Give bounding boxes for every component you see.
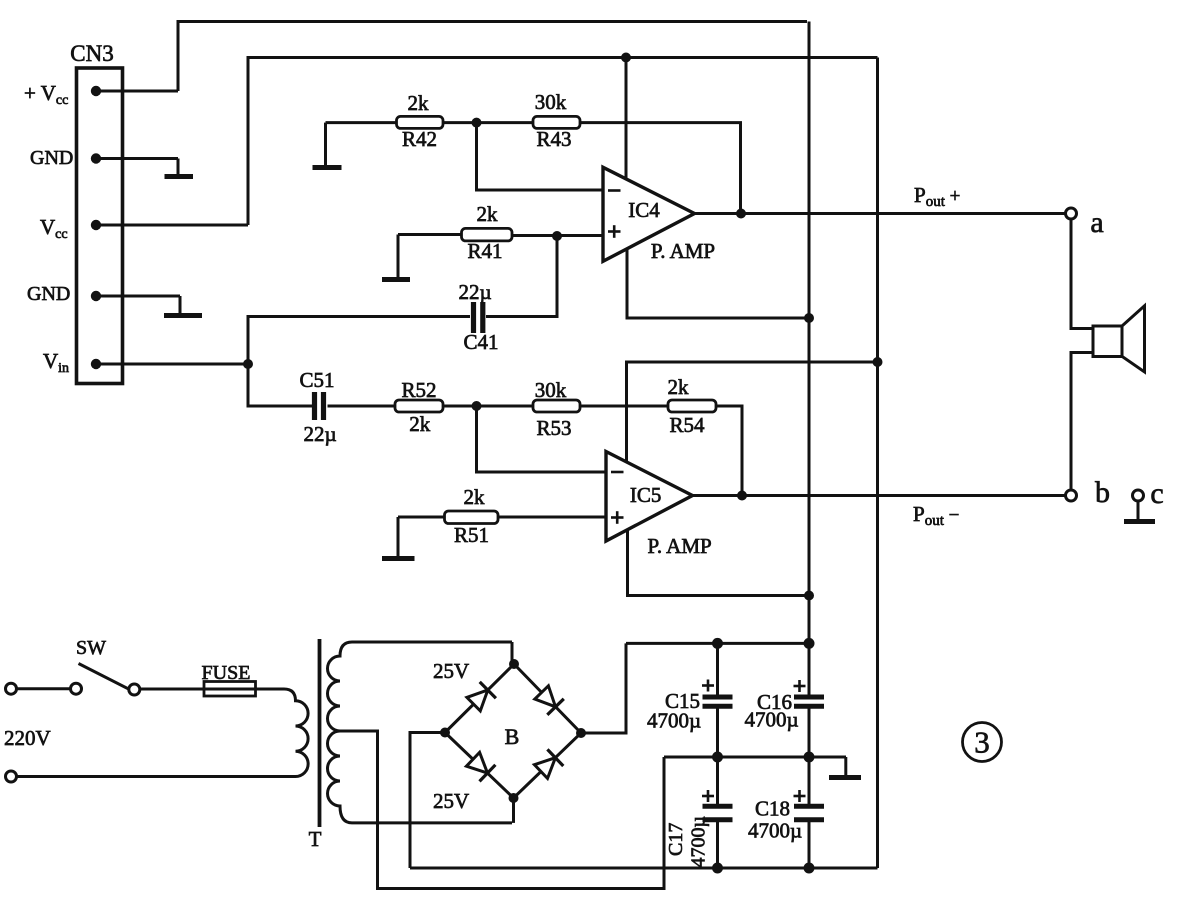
resistor R51 [445, 485, 499, 547]
svg-text:P. AMP: P. AMP [647, 534, 711, 558]
svg-text:22µ: 22µ [458, 280, 491, 304]
svg-text:IC4: IC4 [628, 198, 660, 222]
capacitor C16 4700u [745, 643, 825, 757]
pin +Vcc dot [91, 86, 101, 96]
pin Vcc dot [91, 220, 101, 230]
wire Vcc rail from CN3 pin3 up and across [248, 58, 878, 226]
speaker [1093, 306, 1145, 372]
node IC5 output junction [737, 491, 747, 501]
node IC5 supply wire to Vcc vertical [873, 357, 883, 367]
node bridge top vertex [509, 659, 519, 669]
wire secondary top to bridge [511, 642, 514, 664]
capacitor C18 4700u [748, 757, 824, 868]
op-amp IC4 [603, 167, 715, 263]
wire R52 to R53 [443, 405, 533, 408]
diode bridge bottom-right [534, 749, 563, 778]
capacitor C17 4700u [665, 757, 733, 868]
wire switch to fuse [140, 688, 204, 691]
node bridge right vertex [576, 728, 586, 738]
svg-text:2k: 2k [477, 202, 499, 226]
label Vcc [40, 215, 68, 242]
node negative rail C18 [804, 863, 815, 874]
transformer T secondary upper winding [328, 642, 513, 731]
svg-text:C18: C18 [755, 797, 790, 821]
svg-text:30k: 30k [535, 378, 567, 402]
wire +Vcc vertical line [808, 22, 811, 644]
wire CN3 pin2 GND lead [95, 157, 178, 160]
node positive rail C16 [804, 638, 815, 649]
op-amp IC5 [606, 452, 712, 559]
node R52/R53 junction [472, 401, 482, 411]
wire mid rail [664, 756, 846, 759]
wire C51 to R52 [328, 405, 396, 408]
label +Vcc [24, 81, 68, 108]
wire junction down to IC5 inverting input [477, 406, 607, 472]
node bridge left vertex [440, 728, 450, 738]
transformer T core [318, 639, 322, 827]
svg-text:GND: GND [27, 283, 70, 305]
svg-text:25V: 25V [433, 659, 469, 683]
wire IC5 positive supply from Vcc via x=877 line [627, 362, 878, 462]
ground mid rail [829, 757, 861, 778]
svg-text:R41: R41 [467, 239, 502, 263]
wire bridge right vertex to positive rail [581, 643, 626, 733]
svg-text:2k: 2k [408, 91, 430, 115]
wire junction down to IC4 inverting input [477, 123, 604, 190]
node mid rail C16 [804, 752, 815, 763]
svg-text:SW: SW [76, 637, 106, 659]
capacitor C51 22u [299, 368, 336, 446]
resistor R42 [397, 91, 444, 151]
svg-text:2k: 2k [464, 485, 486, 509]
wire R43 feedback to IC4 output [580, 123, 741, 214]
svg-text:a: a [1090, 206, 1103, 239]
svg-text:4700µ: 4700µ [745, 708, 799, 732]
pin GND2 dot [91, 153, 101, 163]
svg-text:b: b [1095, 476, 1110, 509]
pin GND4 dot [91, 291, 101, 301]
diode bridge top-left [467, 682, 496, 711]
bridge rectifier B arms [445, 664, 581, 798]
capacitor C41 22u [458, 280, 498, 354]
label Pout+ [914, 183, 960, 210]
node mid rail C15 [712, 752, 723, 763]
capacitor C15 4700u [647, 643, 733, 757]
node Vcc rail to IC4 power junction [621, 53, 631, 63]
transformer T secondary lower winding [328, 731, 513, 823]
wire Vin branch down to C51 [248, 364, 312, 406]
node Vin junction [243, 359, 253, 369]
label 220V [4, 726, 51, 750]
svg-text:c: c [1150, 477, 1163, 510]
resistor R43 [533, 90, 580, 151]
diode bridge bottom-left [466, 752, 495, 781]
wire R53 to R54 [580, 405, 668, 408]
wire +Vcc top rail from CN3 pin1 up and across to right [178, 22, 807, 92]
node terminal b [1066, 476, 1111, 509]
wire Vcc vertical line [876, 58, 879, 869]
svg-text:C17: C17 [665, 823, 687, 856]
wire IC5 output to terminal b [693, 494, 1072, 497]
ground terminal c [1124, 501, 1155, 522]
svg-text:R42: R42 [402, 127, 437, 151]
ground R41 left end [382, 235, 410, 280]
label 25V upper [433, 659, 469, 683]
svg-text:R43: R43 [536, 127, 571, 151]
svg-text:22µ: 22µ [303, 422, 336, 446]
svg-text:220V: 220V [4, 726, 51, 750]
wire R42 left lead [326, 121, 397, 124]
node negative rail C17 [712, 863, 723, 874]
wire positive rail [626, 642, 809, 645]
svg-text:2k: 2k [409, 412, 431, 436]
svg-text:FUSE: FUSE [202, 662, 251, 684]
label T [309, 827, 322, 851]
label GND2 [30, 147, 73, 169]
svg-text:R51: R51 [454, 523, 489, 547]
wire CN3 pin5 Vin lead [95, 363, 248, 366]
transformer T primary winding [284, 689, 308, 777]
ground CN3 pin2 [165, 159, 194, 177]
label Pout- [913, 502, 959, 529]
wire R54 down to IC5 output [716, 406, 742, 496]
wire CN3 pin3 Vcc lead [95, 224, 248, 227]
svg-text:4700µ: 4700µ [688, 816, 710, 868]
ground R51 left end [382, 517, 415, 559]
svg-text:CN3: CN3 [70, 41, 113, 66]
wire R42 to R43 [443, 121, 533, 124]
resistor R52 [395, 378, 443, 436]
node IC4 supply to +Vcc vertical [804, 313, 814, 323]
svg-text:B: B [505, 724, 520, 749]
node positive rail C15 [712, 638, 723, 649]
svg-text:R54: R54 [669, 413, 705, 437]
wire CN3 pin1 +Vcc lead [95, 90, 178, 93]
node terminal c [1133, 477, 1164, 510]
wire R51 to IC5 non-inverting input [498, 516, 606, 519]
wire mains top to switch [17, 687, 71, 690]
svg-text:T: T [309, 827, 322, 851]
wire IC4 negative supply down to +Vcc line [627, 249, 809, 318]
label Vin [43, 349, 69, 376]
svg-text:2k: 2k [668, 375, 690, 399]
node terminal a [1066, 206, 1104, 239]
switch SW [71, 637, 140, 695]
wire negative rail [410, 867, 878, 870]
wire speaker to terminal b [1071, 353, 1093, 491]
pin Vin dot [91, 359, 101, 369]
svg-text:3: 3 [974, 725, 990, 760]
wire CN3 pin4 GND lead [95, 295, 180, 298]
wire terminal a to speaker [1071, 219, 1093, 329]
wire secondary bottom to bridge [512, 798, 515, 823]
svg-text:R52: R52 [401, 378, 436, 402]
svg-text:IC5: IC5 [630, 483, 662, 507]
resistor R54 [668, 375, 717, 437]
connector CN3 [70, 41, 122, 384]
wire R41 to IC4 non-inverting input [512, 234, 603, 237]
resistor R53 [533, 378, 580, 440]
wire IC4 positive supply from Vcc rail [625, 58, 628, 179]
node IC4 output junction [736, 209, 746, 219]
node bridge bottom vertex [509, 793, 519, 803]
wire secondary centre tap [340, 731, 664, 889]
label GND4 [27, 283, 70, 305]
wire IC5 negative supply down to +Vcc line [628, 529, 810, 596]
svg-text:25V: 25V [433, 789, 469, 813]
wire IC4 output to terminal a [695, 212, 1072, 215]
svg-text:GND: GND [30, 147, 73, 169]
svg-text:4700µ: 4700µ [748, 819, 802, 843]
node R41/C41 junction [552, 231, 562, 241]
svg-text:C51: C51 [299, 368, 334, 392]
wire mains bottom to transformer primary [17, 775, 285, 778]
wire Vin branch up to C41 [248, 317, 470, 365]
wire fuse to transformer primary [256, 688, 285, 691]
wire bridge left vertex to negative rail [410, 733, 445, 869]
svg-text:P. AMP: P. AMP [651, 239, 715, 263]
svg-text:R53: R53 [536, 416, 571, 440]
ground R42 left end [313, 123, 342, 168]
svg-text:4700µ: 4700µ [647, 709, 701, 733]
label 25V lower [433, 789, 469, 813]
fuse FUSE [202, 662, 256, 696]
svg-text:30k: 30k [535, 90, 567, 114]
wire R51 left lead [398, 516, 445, 519]
resistor R41 [462, 202, 513, 263]
wire junction down to C41 right plate [486, 236, 557, 317]
svg-text:C41: C41 [463, 330, 498, 354]
ground CN3 pin4 [164, 296, 202, 316]
node mains terminal bottom [6, 771, 17, 782]
diode bridge top-right [535, 686, 564, 715]
node mains terminal top [6, 683, 17, 694]
wire R41 left lead [398, 233, 462, 236]
node IC5 supply to +Vcc vertical [804, 591, 814, 601]
node R42/R43 junction [472, 118, 482, 128]
figure number 3 [963, 723, 1002, 762]
